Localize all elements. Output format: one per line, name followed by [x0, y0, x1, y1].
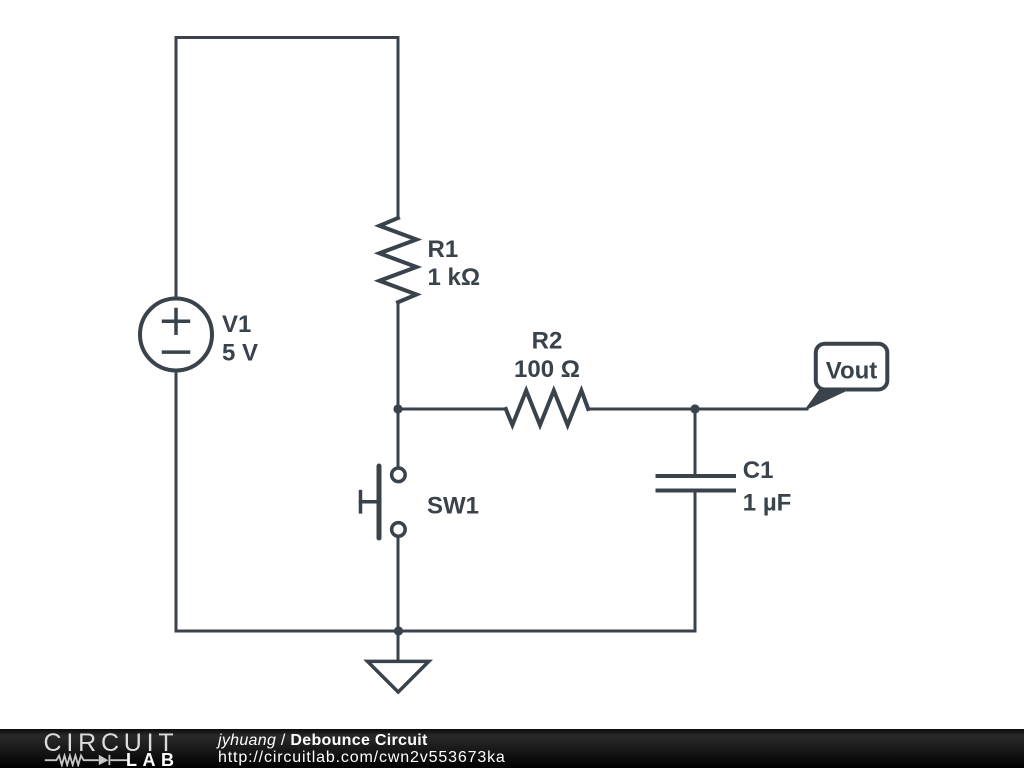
resistor R2: [506, 391, 588, 426]
resistor R1: [380, 218, 417, 302]
CircuitLab logo wordmark CIRCUIT: [44, 729, 179, 758]
wire top horizontal: [176, 36, 398, 39]
svg-text:100 Ω: 100 Ω: [514, 356, 580, 383]
svg-text:R1: R1: [428, 236, 459, 263]
wire node B to Vout: [695, 408, 807, 411]
wire node A to R2: [398, 408, 506, 411]
wire left rail lower: [175, 371, 178, 632]
ground: [368, 631, 429, 692]
svg-text:R2: R2: [532, 328, 563, 355]
node A junction dot: [393, 404, 402, 413]
footer text line 2: [218, 749, 506, 767]
CircuitLab logo resistor-diode squiggle: [44, 753, 130, 767]
voltage source V1: [140, 299, 212, 371]
wire R2 to node B: [588, 408, 695, 411]
labels: [222, 236, 877, 519]
svg-text:1 µF: 1 µF: [743, 489, 792, 516]
wire left rail upper: [175, 38, 178, 299]
svg-text:5 V: 5 V: [222, 339, 258, 366]
Vout flag: [807, 344, 888, 409]
svg-text:Vout: Vout: [826, 358, 878, 385]
wire bottom horizontal: [176, 630, 695, 633]
CircuitLab logo wordmark LAB: [126, 750, 180, 768]
svg-text:SW1: SW1: [427, 492, 479, 519]
svg-text:1 kΩ: 1 kΩ: [428, 264, 481, 291]
ground node junction dot: [394, 626, 403, 635]
capacitor C1: [658, 409, 735, 631]
wire middle rail upper: [397, 38, 400, 219]
switch SW1: [361, 409, 406, 631]
footer bar: [0, 729, 1024, 768]
svg-text:C1: C1: [743, 457, 774, 484]
svg-text:V1: V1: [222, 311, 251, 338]
node B junction dot: [690, 404, 699, 413]
wire R1 to node A: [397, 302, 400, 409]
footer text line 1: [218, 732, 428, 750]
